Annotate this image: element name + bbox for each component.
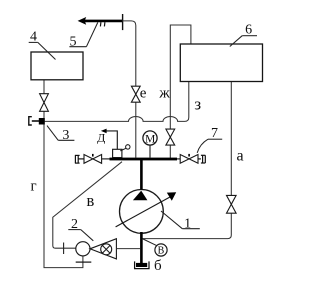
vent arrow head (line 5 outlet) (78, 17, 87, 25)
wire: line ж (riser to tank 6 top) (170, 25, 191, 159)
label 3 (47, 126, 74, 144)
svg-text:Д: Д (97, 130, 105, 144)
vacuum pump 1 (116, 190, 177, 234)
hand valve left of manifold (75, 154, 110, 163)
svg-text:М: М (145, 133, 155, 145)
vent tick 2 (103, 22, 106, 26)
svg-text:в: в (87, 191, 95, 210)
pump 2 drain strainer bar (76, 261, 92, 263)
suction line tick (63, 243, 65, 255)
valve e (on vent riser) (131, 86, 140, 102)
wire: line г (valve 3 down, bottom run, up to pump 2 drain) (44, 80, 83, 268)
label 6 (230, 23, 257, 47)
tank 4 (31, 52, 83, 80)
pump 1 inlet thick line (140, 160, 143, 190)
pump 1 outlet thick line (140, 232, 143, 265)
svg-text:г: г (31, 179, 37, 195)
tank 6 (180, 44, 262, 82)
valve a (on line а) (227, 195, 237, 213)
solenoid valve 3 (29, 117, 45, 125)
label 5 (69, 22, 97, 49)
vent tick 1 (99, 22, 102, 26)
manifold bar (110, 158, 178, 161)
svg-text:з: з (194, 94, 201, 113)
svg-text:ж: ж (158, 86, 170, 102)
valve under tank 4 (40, 94, 49, 112)
vent cross tick (122, 14, 124, 30)
vent thick pipe (85, 20, 123, 23)
label 1 (161, 211, 200, 231)
pressure sensor box (113, 145, 130, 158)
wire: line в (manifold to pump 2 suction) (53, 162, 122, 249)
svg-text:В: В (158, 246, 165, 257)
drain tank symbol (135, 261, 149, 268)
wire: line е (vent riser) (122, 21, 135, 158)
valve 7 (177, 154, 205, 163)
label 7 (197, 126, 222, 153)
pump 2 (booster) (76, 239, 117, 259)
svg-text:е: е (140, 86, 147, 102)
svg-text:3: 3 (62, 128, 69, 143)
wire: pump 2 discharge (116, 248, 140, 250)
label 2 (68, 217, 93, 241)
wire: line з with hops (tank 6 bottom to valve 3) (45, 82, 189, 122)
wire: line а (tank 6 bottom to pump outlet) (143, 82, 232, 239)
motor M (143, 131, 157, 158)
gauge В (143, 239, 167, 257)
label 4 (29, 29, 56, 59)
svg-text:б: б (154, 258, 162, 274)
svg-text:7: 7 (211, 126, 218, 141)
svg-text:а: а (236, 147, 243, 164)
valve zh (on line ж) (166, 129, 175, 145)
node Д signal flag (97, 129, 117, 150)
